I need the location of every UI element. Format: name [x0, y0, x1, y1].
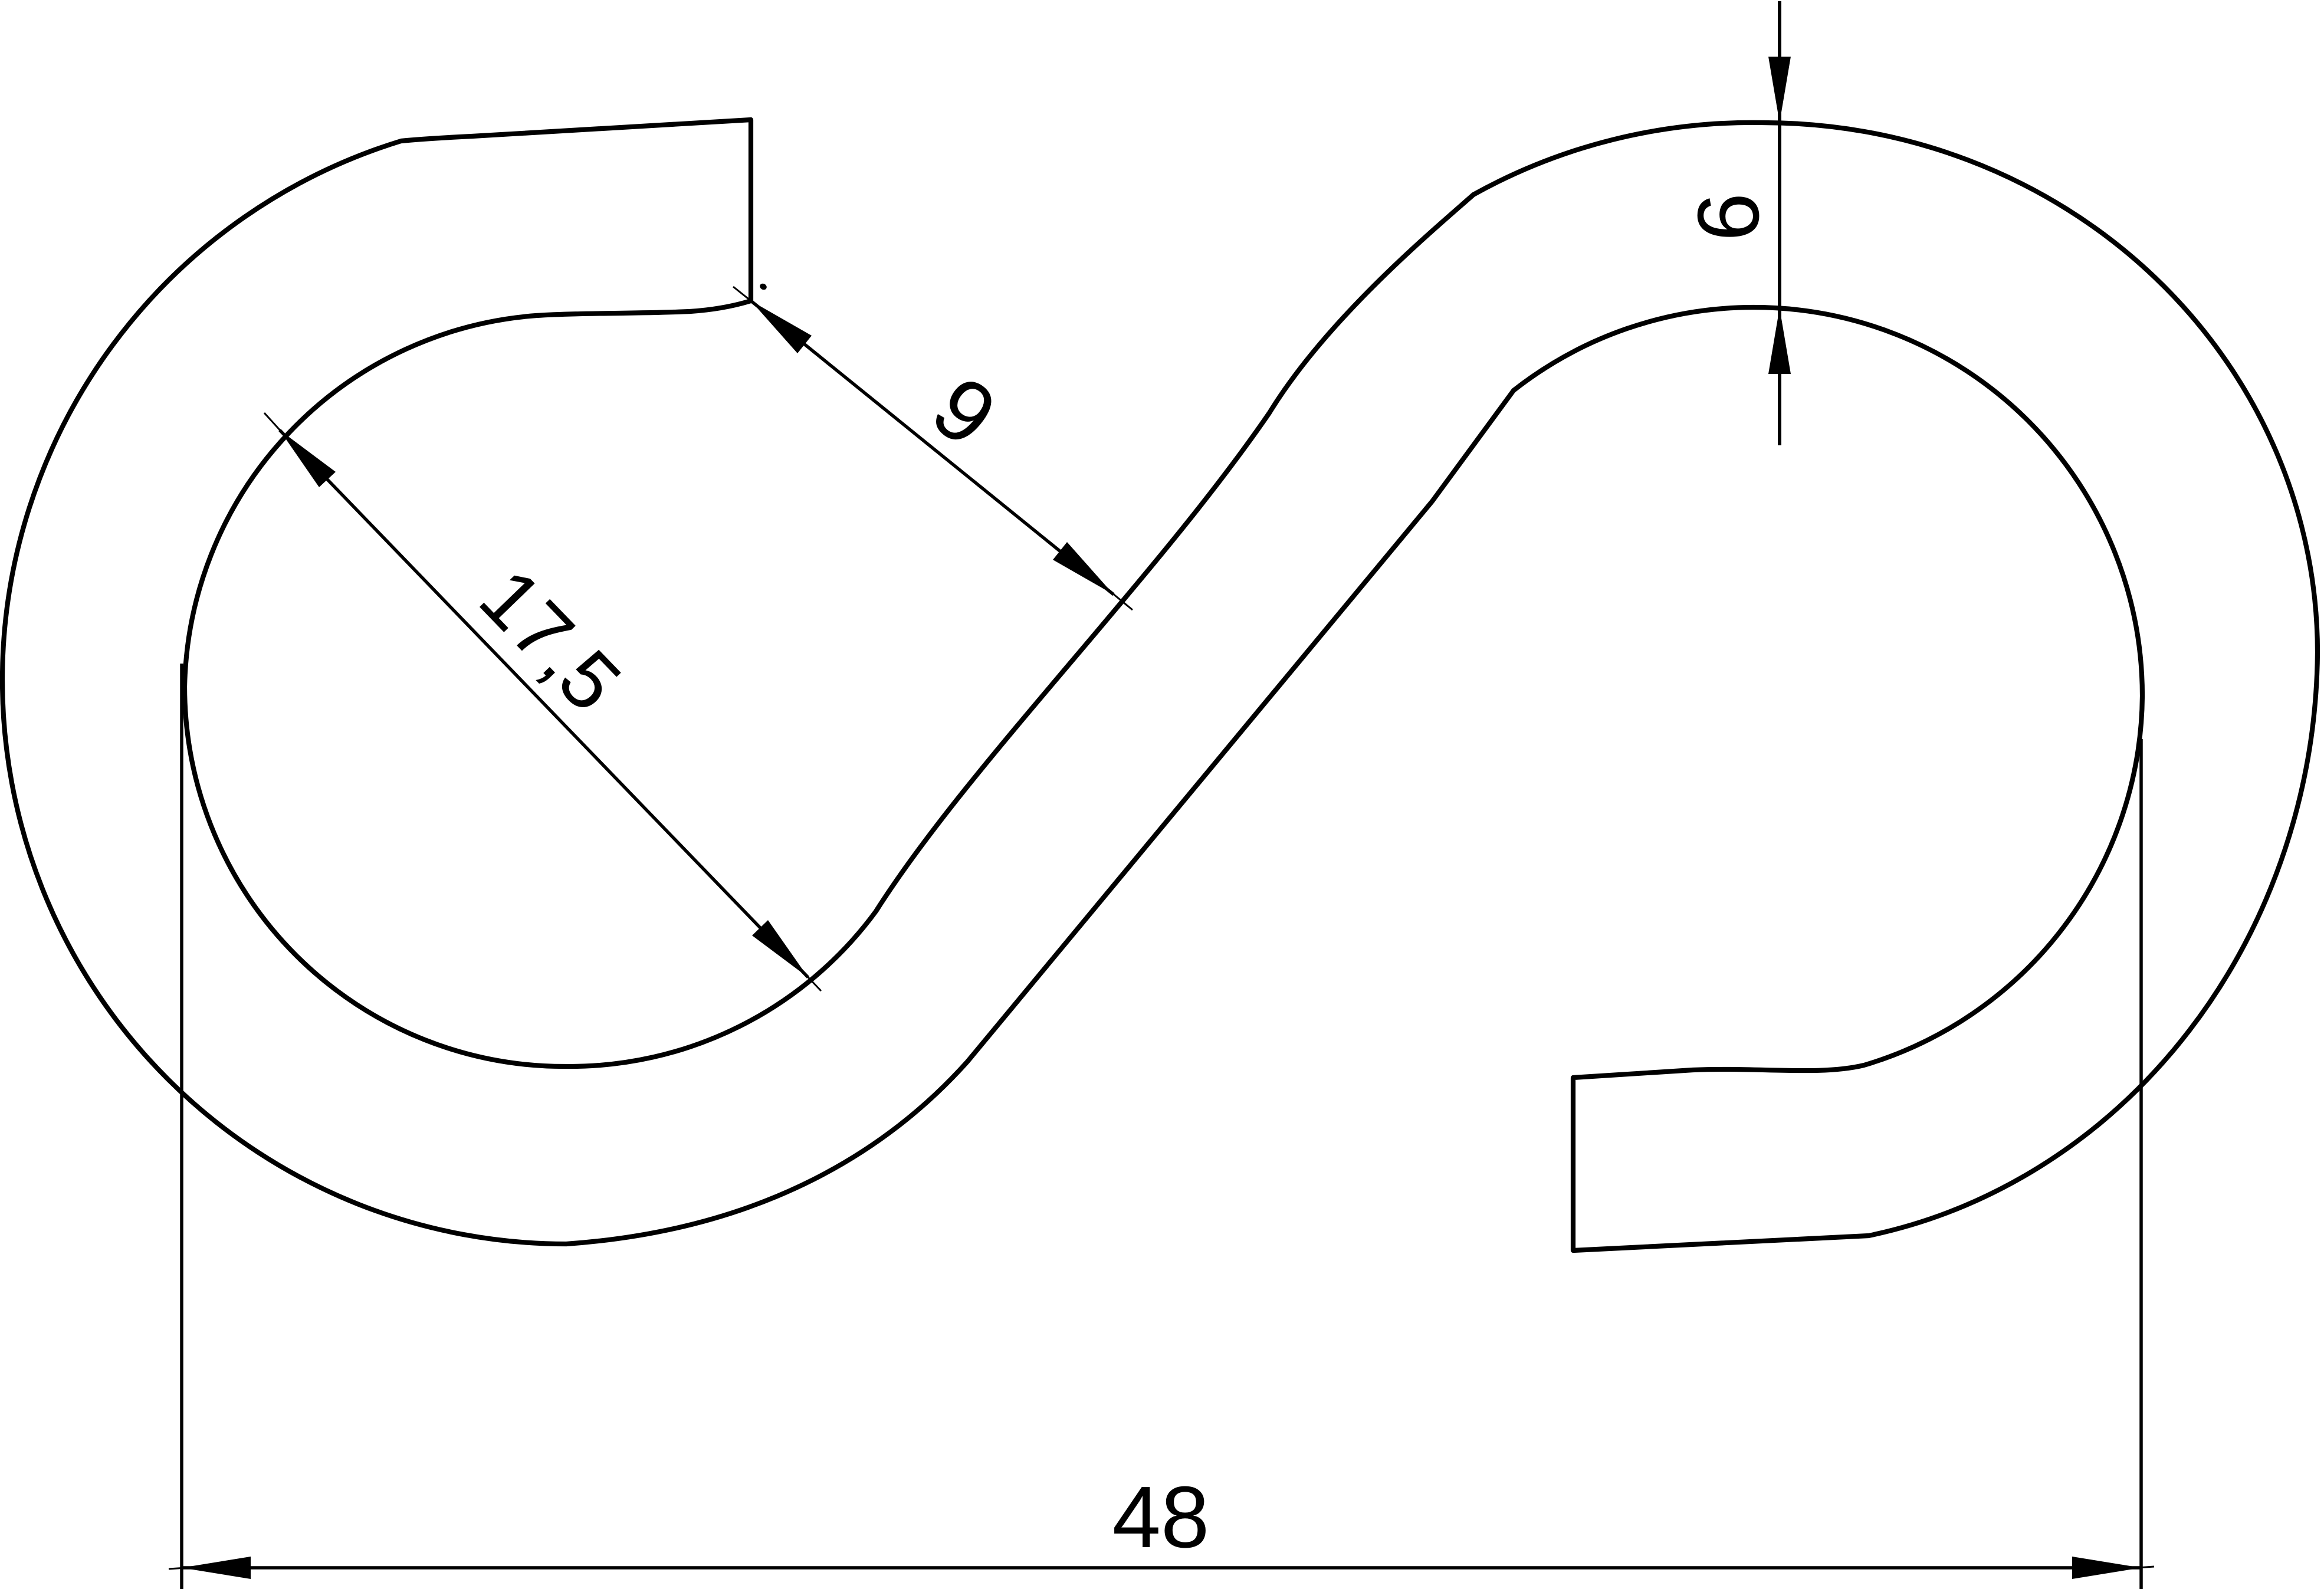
svg-text:48: 48 [1112, 1469, 1210, 1566]
svg-text:6: 6 [1680, 193, 1777, 241]
